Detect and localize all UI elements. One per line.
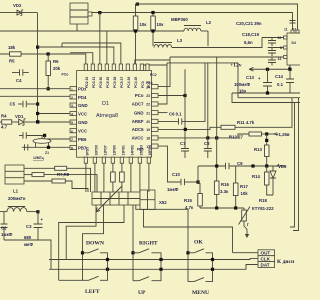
MCU D1 ATmega8 body [77, 71, 152, 158]
svg-text:0.1: 0.1 [277, 82, 284, 87]
resistor R16 [214, 181, 219, 208]
thermistor R18 [239, 207, 251, 239]
wire row1 [24, 167, 55, 169]
svg-text:PC2: PC2 [150, 73, 157, 77]
node crystal top [43, 134, 46, 137]
arrow +1.26v [274, 133, 277, 135]
svg-text:16PB4: 16PB4 [148, 145, 152, 155]
svg-text:ADC7: ADC7 [132, 102, 144, 107]
wire trimmer out bus1 loop [66, 205, 96, 260]
cap C8 [204, 149, 212, 159]
connector CLK box [258, 256, 275, 262]
pin box 12 [296, 30, 299, 33]
cap C10 [181, 179, 198, 185]
svg-text:PC6 30: PC6 30 [99, 77, 103, 88]
wire gnd bottom-left [4, 240, 51, 269]
svg-text:PC4 25: PC4 25 [134, 77, 138, 88]
wire trimmer out col B [132, 205, 134, 281]
svg-text:10к: 10к [140, 22, 148, 27]
resistor R12 [249, 132, 262, 136]
svg-text:4: 4 [71, 113, 73, 117]
svg-text:CLK: CLK [261, 256, 271, 261]
wire pin PC2 corner [142, 65, 167, 71]
wire PD3 row y88.7 [0, 88, 70, 90]
svg-text:6: 6 [71, 130, 73, 134]
svg-text:R15: R15 [184, 198, 192, 203]
svg-text:PDз: PDз [78, 87, 86, 92]
svg-text:R14: R14 [252, 174, 260, 179]
wire R5 net y54 [0, 54, 86, 71]
svg-text:AVCC: AVCC [132, 136, 144, 141]
cap C18 on pin10 wire [268, 38, 276, 47]
svg-text:C20,C21 39n: C20,C21 39n [236, 21, 262, 26]
pin 10 wire [262, 37, 287, 39]
top pin boxes [84, 64, 149, 71]
resistor R15 [198, 182, 203, 208]
wire L2 to node [207, 31, 209, 46]
svg-text:3.3к: 3.3к [220, 189, 229, 194]
node DOWN bus2 [106, 268, 109, 271]
svg-text:L3: L3 [177, 38, 183, 43]
wire GND row y122.5 from VD1 node [38, 121, 70, 123]
top pin rotated labels [85, 77, 151, 88]
cap C14 [286, 69, 294, 93]
svg-text:L1: L1 [13, 189, 19, 194]
diode VD9 [270, 166, 276, 195]
svg-text:C7: C7 [180, 141, 186, 146]
svg-text:мкФ: мкФ [24, 242, 33, 247]
node on bus at y47 [36, 46, 39, 49]
svg-text:D1: D1 [102, 101, 109, 107]
svg-text:100мкФ: 100мкФ [234, 82, 250, 87]
node pin23 [183, 94, 186, 97]
cap C5 [18, 101, 38, 107]
svg-text:18k: 18k [8, 45, 16, 50]
cap C2 [1, 212, 8, 240]
wire R12 right [262, 133, 275, 135]
svg-text:OK: OK [194, 240, 203, 246]
resistor R22 [32, 173, 44, 177]
node y12.5 x102.6 [98, 11, 101, 14]
svg-text:C13: C13 [246, 75, 254, 80]
wire pin23 stub [158, 95, 185, 97]
wire pin PC3 corner [135, 60, 170, 71]
svg-text:R16: R16 [221, 182, 229, 187]
node pin4 [288, 68, 291, 71]
diode VD2 [17, 10, 23, 16]
svg-text:VD1: VD1 [15, 114, 24, 119]
vertical bus x216.7 to R16 [216, 57, 218, 181]
wire PD4 row y96.3 [0, 95, 70, 97]
svg-text:C8: C8 [204, 141, 210, 146]
svg-text:1мкФ: 1мкФ [167, 187, 179, 192]
svg-text:PD3 31: PD3 31 [92, 77, 96, 88]
node C13 top [266, 68, 269, 71]
svg-text:R13: R13 [254, 147, 262, 152]
svg-text:20: 20 [146, 120, 150, 124]
wire right-edge vertical B [293, 98, 299, 231]
svg-text:R18: R18 [259, 198, 267, 203]
wire C10 node up [197, 166, 199, 182]
wire top rail y4 [136, 4, 298, 30]
svg-text:10к: 10к [157, 22, 165, 27]
resistor R2 10k right [151, 13, 156, 47]
svg-text:15PB3: 15PB3 [140, 145, 144, 155]
svg-text:R12 27: R12 27 [229, 135, 243, 140]
svg-text:11: 11 [284, 28, 288, 32]
svg-text:PC3: PC3 [141, 81, 145, 88]
node RIGHT bus2 [159, 268, 162, 271]
switch DOWN [81, 249, 108, 269]
wire row2 to chip [44, 175, 97, 192]
switch UP [133, 271, 161, 281]
bus2 wire [49, 265, 258, 270]
node y208 x235.7 [234, 206, 237, 209]
svg-text:C6 0.1: C6 0.1 [169, 112, 182, 117]
svg-text:10: 10 [278, 36, 282, 40]
svg-text:12PB0: 12PB0 [113, 145, 117, 155]
svg-text:19: 19 [146, 128, 150, 132]
wire pin18 [158, 134, 249, 138]
node L1 out [36, 210, 39, 213]
connector box X1 [5, 165, 24, 184]
rail y62.9 from pin22 [167, 63, 300, 98]
cap C1 [19, 132, 45, 138]
+12v rail arrow [249, 67, 290, 71]
wire pin16 to trimmer [148, 163, 150, 192]
trimmer wiper arrow [96, 186, 122, 212]
node DOWN bus1 [106, 258, 109, 261]
svg-text:1: 1 [71, 88, 73, 92]
wire trimmer out to OUT [144, 210, 233, 253]
resistor R6 [46, 54, 51, 89]
node VCC row [36, 112, 39, 115]
svg-text:5,6n: 5,6n [244, 40, 253, 45]
right pin numbers [146, 85, 150, 148]
cap C6 plates [179, 118, 182, 124]
resistor R21 [55, 166, 67, 170]
svg-text:L2: L2 [206, 20, 212, 25]
node C10 right [196, 180, 199, 183]
wire L3 out to D4 pin10 [172, 38, 262, 48]
cap C4 [12, 69, 29, 75]
node resonator right [47, 146, 50, 149]
resistor R11 [221, 125, 235, 129]
svg-text:14: 14 [278, 57, 282, 61]
wire pin22 up to rail [158, 63, 167, 104]
wire pin14 to trimmer [130, 163, 132, 192]
pin box 11 [291, 30, 294, 33]
wire pin fan y52.7 [70, 53, 93, 71]
wire gnd y208 [200, 207, 244, 209]
svg-text:X52: X52 [159, 200, 167, 205]
svg-text:PB6: PB6 [78, 137, 87, 142]
wire pin PC6 drop [106, 31, 108, 71]
node OK bus2 [211, 268, 214, 271]
svg-text:+12v: +12v [230, 63, 242, 69]
svg-text:R11 4.7k: R11 4.7k [237, 120, 255, 125]
svg-text:C9: C9 [237, 161, 243, 166]
trimmer R7 R8 block [92, 192, 140, 205]
vertical bus x185 [184, 69, 186, 148]
arrow VD9 [277, 164, 280, 167]
wire trimmer out left loop [59, 205, 124, 280]
svg-text:PC5 28: PC5 28 [113, 77, 117, 88]
cap C21 on pin14 wire [268, 57, 276, 66]
wire pin17 to C10 [158, 146, 181, 182]
resistor R17 [233, 166, 238, 208]
wire pin10 to trimmer [94, 163, 96, 192]
node R13 top [265, 139, 268, 142]
svg-text:R6: R6 [53, 59, 59, 64]
resistor R13 [265, 145, 270, 166]
connector X52 box [140, 190, 155, 210]
svg-text:C2: C2 [1, 226, 7, 231]
inductor L3 [154, 43, 172, 48]
resistor R1 10k left [133, 4, 138, 71]
svg-text:AREF: AREF [132, 119, 144, 124]
wire long y31 [0, 30, 184, 32]
svg-text:GND: GND [78, 103, 88, 108]
rail y102.5 [232, 93, 300, 103]
svg-text:200мкГн: 200мкГн [8, 196, 26, 201]
D4 pin4 stub [289, 65, 291, 69]
svg-text:14PB2: 14PB2 [131, 145, 135, 155]
pin box 14 [284, 56, 288, 59]
svg-text:R7,R8: R7,R8 [57, 172, 70, 177]
svg-text:2: 2 [71, 96, 73, 100]
wire pin11 to trimmer [103, 163, 105, 192]
svg-text:Atmega8: Atmega8 [96, 113, 118, 119]
cap C7 [181, 149, 189, 159]
left pin inside labels [78, 87, 88, 151]
right pin boxes [152, 85, 159, 149]
svg-text:20k: 20k [53, 66, 61, 71]
wire pin9 to trimmer [85, 163, 87, 192]
svg-text:R5: R5 [9, 59, 15, 64]
svg-text:9PD5: 9PD5 [86, 147, 90, 156]
node y208 x216.7 [215, 206, 218, 209]
connector OUT box [258, 250, 275, 256]
resistor R14 [265, 166, 274, 195]
IC D4 body [287, 33, 301, 65]
svg-text:PC6 29: PC6 29 [106, 77, 110, 88]
relay box K1 [70, 3, 92, 24]
svg-text:GND: GND [78, 120, 88, 125]
svg-text:22: 22 [146, 103, 150, 107]
svg-text:DAT: DAT [261, 262, 270, 267]
wire relay out y12.5 [92, 13, 293, 31]
svg-text:PCо: PCо [135, 93, 144, 98]
node pin18 x216.7 [215, 136, 218, 139]
svg-text:3: 3 [71, 104, 73, 108]
wire right-edge vertical A [290, 103, 295, 228]
resistor R10 [120, 163, 125, 192]
ground rail y93 [232, 92, 300, 94]
node y166 x253 [251, 164, 254, 167]
wire row1 to chip [67, 168, 91, 192]
wire trimmer out col A [83, 205, 104, 280]
svg-text:23: 23 [146, 94, 150, 98]
inductor L1 [0, 207, 38, 212]
svg-text:8: 8 [280, 46, 282, 50]
cap C19 on pin8 wire [268, 48, 276, 57]
wire OUT [233, 252, 259, 254]
svg-text:+1,26в: +1,26в [276, 132, 290, 137]
svg-text:13PB1: 13PB1 [122, 145, 126, 155]
switch LEFT [59, 269, 108, 280]
pin 14 wire rail y57 [170, 56, 287, 58]
diode VD1 [19, 119, 38, 125]
svg-text:КТY81-222: КТY81-222 [252, 206, 274, 211]
node R5/R6 [47, 52, 50, 55]
vertical bus x207.8 C8 [207, 63, 209, 149]
wire node to PB6 [45, 136, 70, 140]
resistor R9 [111, 163, 116, 192]
svg-text:OUT: OUT [261, 251, 271, 256]
wire pin20 with cap C6 [158, 63, 205, 122]
switch OK [186, 249, 212, 270]
cap C13 electrolytic [263, 69, 272, 93]
wire pin19 [158, 127, 221, 129]
wire row2 [24, 174, 32, 176]
svg-text:4.7к: 4.7к [185, 205, 194, 210]
node RIGHT bus1 [159, 258, 162, 261]
svg-text:C3: C3 [26, 224, 32, 229]
svg-text:21: 21 [146, 111, 150, 115]
wire pin15 to trimmer [139, 163, 141, 192]
wire pin24 up to rail [158, 57, 170, 87]
wire row3 to chip [65, 181, 88, 192]
wire relay stub down [76, 24, 78, 31]
svg-text:12МГц: 12МГц [33, 156, 45, 160]
svg-text:18: 18 [146, 137, 150, 141]
node R2 bottom [151, 29, 154, 32]
svg-text:VD9: VD9 [278, 164, 287, 169]
switch MENU [188, 270, 213, 281]
node y166 x266.7 [265, 164, 268, 167]
svg-text:24: 24 [146, 85, 150, 89]
pin box 10 [284, 36, 288, 39]
svg-text:C14: C14 [275, 74, 283, 79]
svg-text:К дисп: К дисп [277, 259, 295, 265]
node C13 gnd [266, 91, 269, 94]
cap C0 on PB7 wire [25, 144, 28, 150]
connector DAT box [258, 262, 275, 268]
svg-text:R4: R4 [1, 114, 7, 119]
wire trimmer out col C [136, 205, 188, 282]
node R6 bottom [47, 87, 50, 90]
bottom pin rotated labels [86, 145, 153, 155]
svg-text:DOWN: DOWN [86, 241, 104, 247]
wire node to R13 [266, 134, 268, 145]
svg-text:1мкФ: 1мкФ [1, 232, 13, 237]
svg-text:VCC: VCC [78, 129, 87, 134]
svg-text:C5: C5 [10, 102, 16, 107]
node R1 top [136, 3, 139, 6]
svg-text:RIGHT: RIGHT [139, 241, 158, 247]
wire x102.6 to pin [99, 13, 101, 71]
svg-text:8: 8 [71, 147, 73, 151]
pin box 8 [284, 46, 288, 49]
switch RIGHT [131, 249, 161, 271]
svg-text:VCC: VCC [78, 111, 87, 116]
svg-text:R17: R17 [240, 184, 248, 189]
bus1 wire [49, 258, 258, 261]
inductor L2 [184, 26, 208, 32]
svg-text:PC5 27: PC5 27 [120, 77, 124, 88]
svg-text:PCо: PCо [62, 73, 69, 77]
wire node y166 [198, 165, 285, 167]
wire VD2 net top [0, 12, 38, 14]
cap C20 on pin11 line [290, 21, 296, 24]
svg-text:680: 680 [24, 235, 32, 240]
svg-text:UP: UP [138, 290, 146, 296]
resistor R23 [52, 179, 65, 183]
node C5 [36, 102, 39, 105]
wire y43 branch [62, 43, 121, 71]
wire R11 right [235, 98, 292, 128]
wire row3 [24, 180, 52, 182]
pin 8 wire [268, 47, 287, 49]
wire y47 branch to pin [38, 47, 114, 71]
node OK bus1 [211, 258, 214, 261]
svg-text:PD4: PD4 [78, 95, 87, 100]
resistor R5 [10, 52, 22, 56]
crystal Z1 resonator [33, 136, 51, 148]
node R2 top [151, 11, 154, 14]
svg-text:10PD6: 10PD6 [95, 145, 99, 155]
svg-text:VD2: VD2 [13, 3, 22, 8]
svg-text:C4: C4 [16, 78, 22, 83]
svg-text:ADC6: ADC6 [132, 127, 144, 132]
svg-text:PC4 26: PC4 26 [127, 77, 131, 88]
cap C9 plates [226, 163, 230, 169]
wire VCC row y113.5 [38, 113, 70, 115]
node pin18 x207.8 [206, 136, 209, 139]
svg-text:C10: C10 [172, 172, 180, 177]
wire +5V bus vertical [37, 13, 39, 122]
svg-text:LEFT: LEFT [85, 289, 100, 295]
svg-text:11PD7: 11PD7 [104, 145, 108, 155]
bottom pin boxes [84, 157, 150, 163]
svg-text:МВР360: МВР360 [171, 17, 188, 22]
wire pin21 stub [158, 112, 168, 114]
svg-text:GND: GND [134, 110, 144, 115]
svg-text:MENU: MENU [192, 290, 209, 296]
node pin19 x185 [184, 128, 187, 131]
cap C3 electrolytic [34, 212, 43, 240]
svg-text:4.7: 4.7 [1, 125, 8, 130]
svg-text:Z1: Z1 [45, 151, 49, 155]
node R1 bottom [134, 29, 137, 32]
right pin inside labels [132, 93, 144, 140]
left pin boxes [70, 87, 77, 150]
node R12 [265, 132, 268, 135]
svg-text:C18,C19: C18,C19 [242, 32, 260, 37]
svg-text:10k: 10k [241, 191, 249, 196]
left pin numbers [71, 88, 73, 151]
node y166 x216.7 [215, 164, 218, 167]
svg-text:5: 5 [71, 121, 73, 125]
svg-text:D4: D4 [292, 41, 296, 45]
node VD1 [36, 120, 39, 123]
wire PB7 row y147.3 [22, 146, 70, 148]
resistor R4 [0, 120, 19, 124]
svg-text:7: 7 [71, 138, 73, 142]
